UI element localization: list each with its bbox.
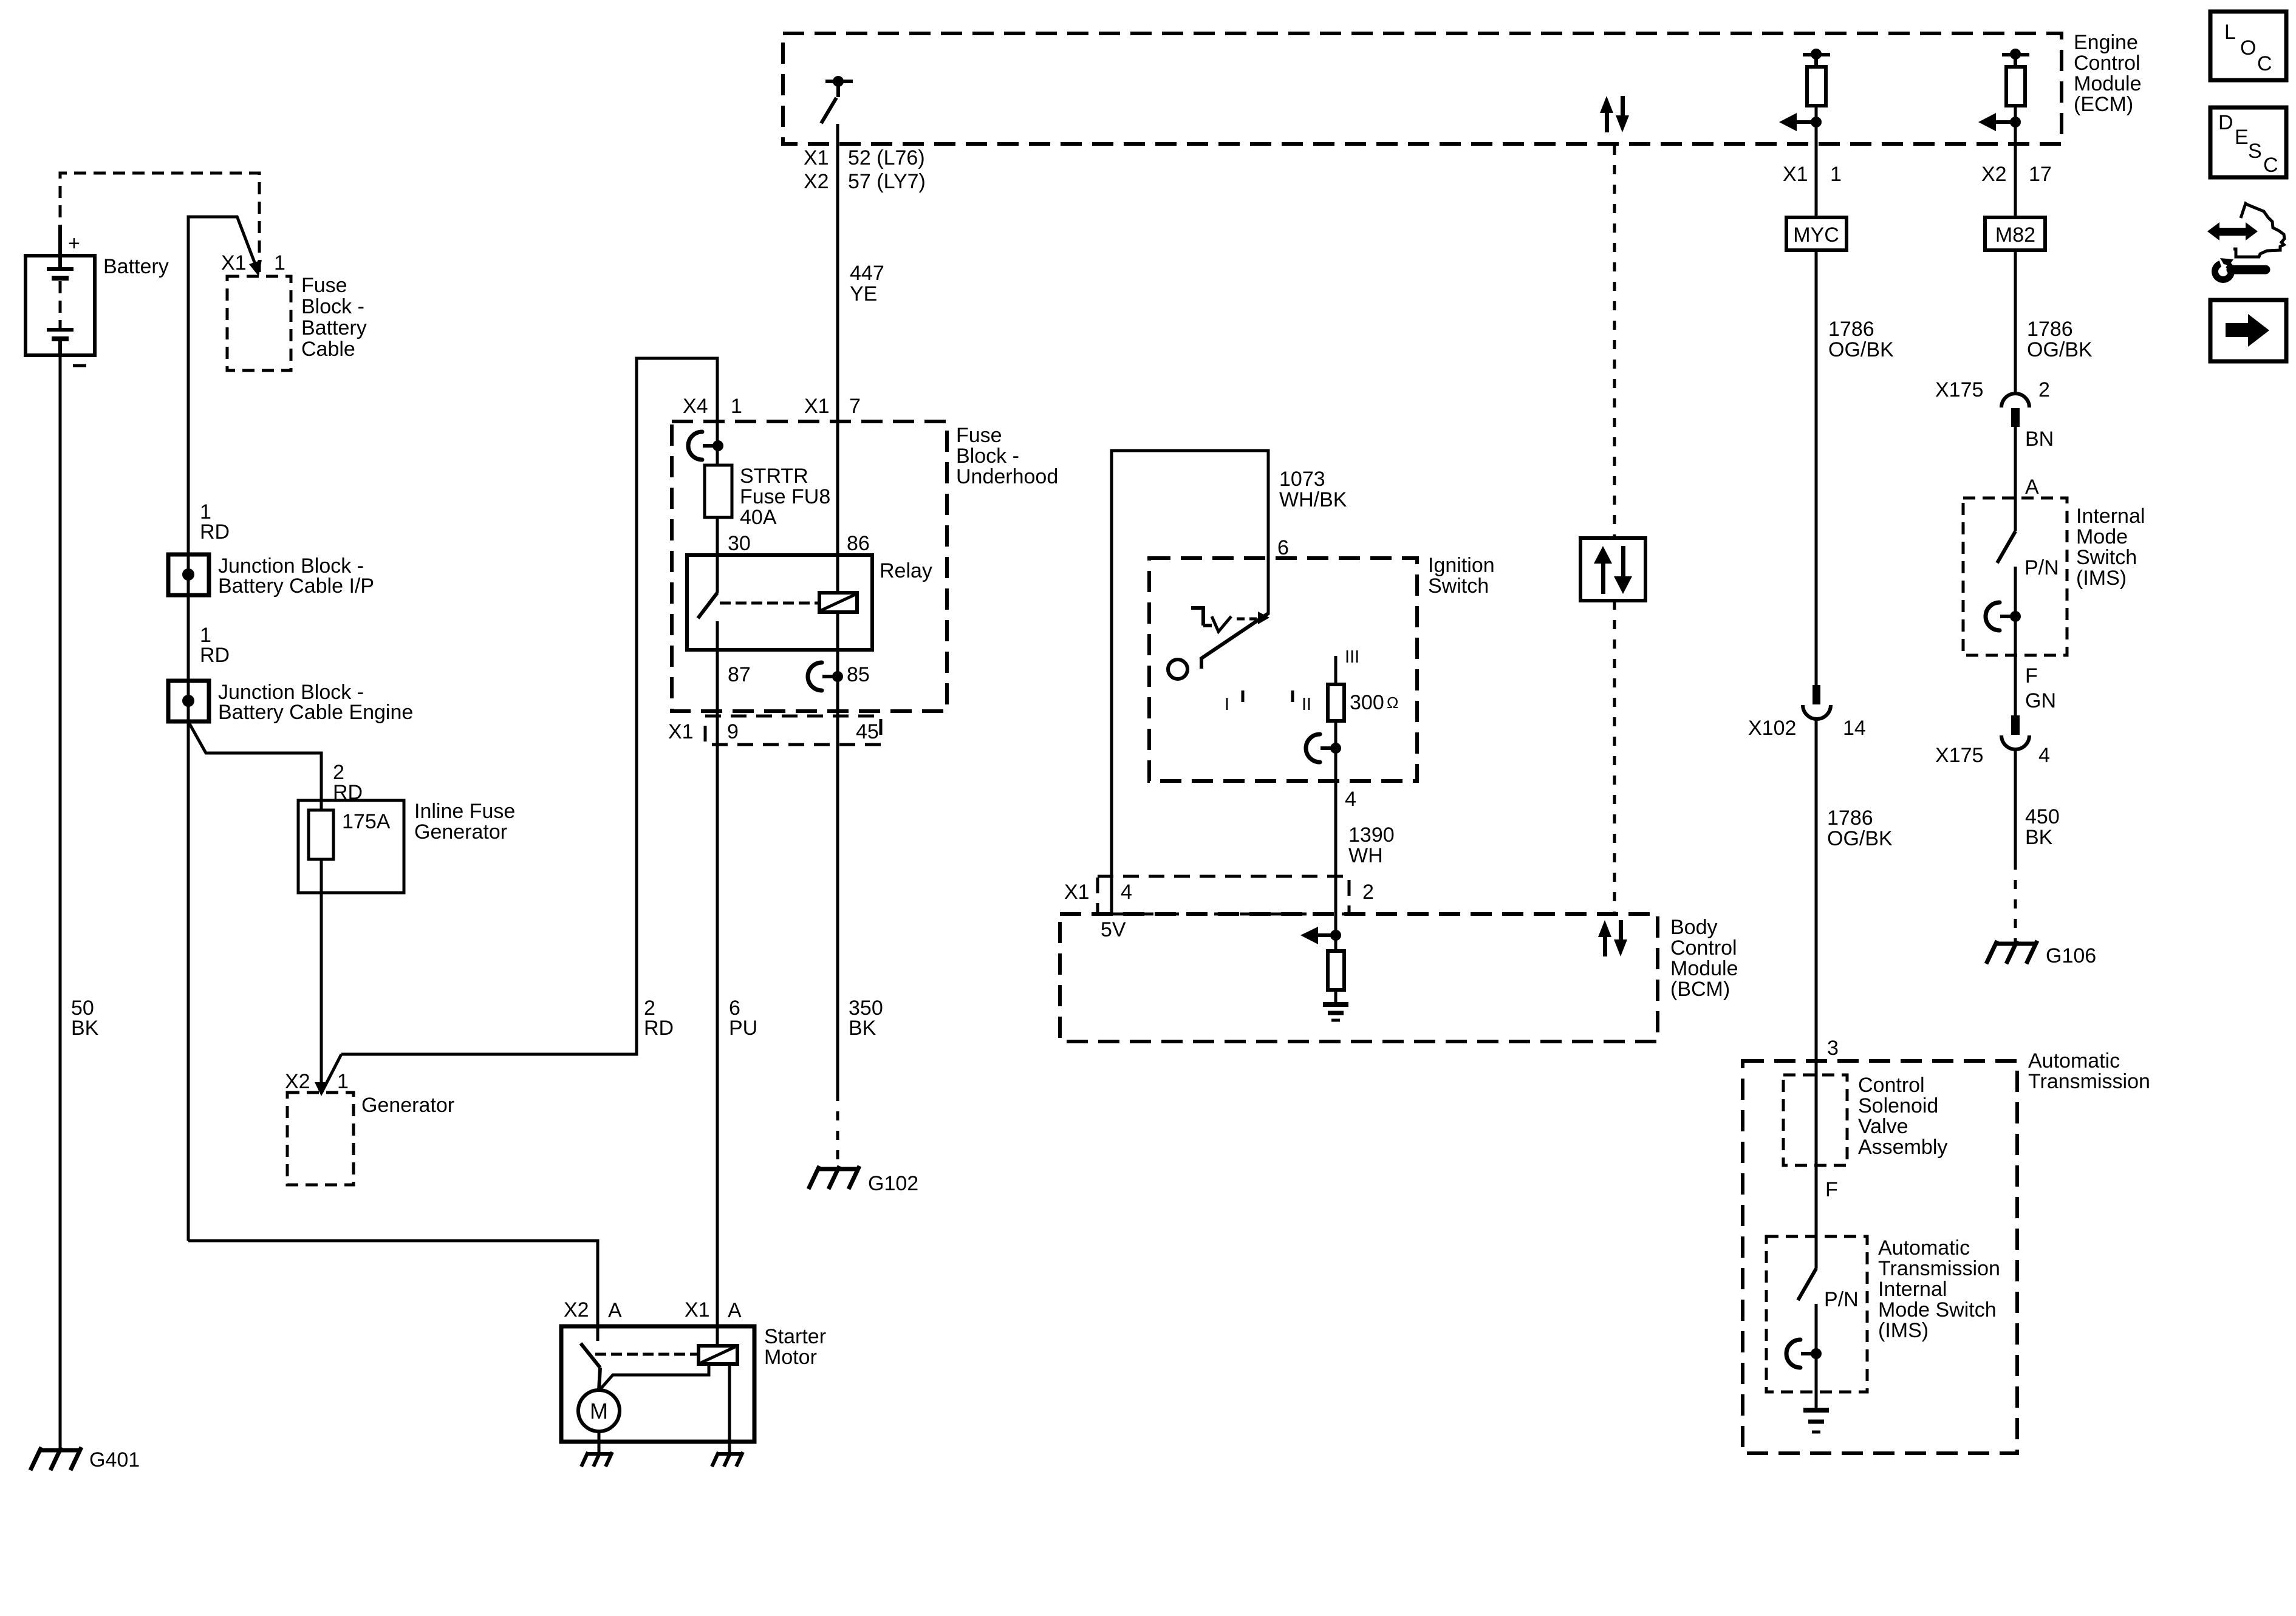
- svg-text:Module: Module: [2074, 72, 2142, 95]
- svg-text:Block -: Block -: [956, 445, 1019, 468]
- svg-text:BK: BK: [2025, 826, 2053, 849]
- connector MYC: [1786, 217, 1847, 250]
- wire 450 BK to ground: [2015, 749, 2060, 942]
- wire BN to IMS pin A: [2015, 427, 2054, 531]
- ignition resistor 300 ohm: [1328, 656, 1398, 721]
- BCM input sense arrow at pin 2: [1300, 927, 1341, 944]
- svg-text:III: III: [1345, 647, 1359, 667]
- svg-text:(BCM): (BCM): [1670, 978, 1730, 1001]
- svg-text:P/N: P/N: [1824, 1288, 1859, 1311]
- svg-text:Transmission: Transmission: [1878, 1257, 2000, 1280]
- switch inside ECM (starter enable): [821, 76, 853, 123]
- svg-text:M: M: [590, 1399, 608, 1423]
- relay 85 clip: [808, 663, 843, 690]
- relay coil: [819, 593, 857, 612]
- svg-text:87: 87: [728, 663, 751, 686]
- svg-text:Valve: Valve: [1858, 1115, 1908, 1138]
- svg-text:Battery: Battery: [301, 316, 367, 339]
- branch wire 2 RD to inline fuse: [189, 723, 363, 810]
- svg-text:Internal: Internal: [2076, 505, 2145, 528]
- svg-text:1786: 1786: [1828, 318, 1874, 341]
- ECM pull-up resistor at pin X1-1: [1779, 49, 1830, 149]
- Fuse Block - Battery Cable dashed box: [227, 274, 367, 370]
- forward arrow legend box: [2210, 300, 2286, 361]
- svg-text:BK: BK: [849, 1017, 876, 1040]
- svg-text:Body: Body: [1670, 916, 1718, 939]
- svg-text:C: C: [2257, 52, 2272, 75]
- svg-text:Engine: Engine: [2074, 31, 2138, 54]
- svg-text:Assembly: Assembly: [1858, 1136, 1947, 1159]
- svg-text:300: 300: [1350, 691, 1384, 714]
- svg-text:(IMS): (IMS): [1878, 1319, 1929, 1342]
- svg-text:GN: GN: [2025, 689, 2056, 712]
- svg-text:447: 447: [850, 262, 884, 285]
- BCM internal up/down arrows: [1598, 920, 1627, 956]
- svg-text:WH: WH: [1348, 844, 1383, 867]
- wire 1786 OG/BK from X102 to automatic transmission pin 3: [1816, 719, 1893, 1269]
- ground G102: [808, 1166, 918, 1195]
- svg-text:2: 2: [1362, 881, 1374, 904]
- svg-text:Generator: Generator: [414, 820, 507, 844]
- svg-text:175A: 175A: [342, 810, 391, 833]
- relay switch blade: [698, 555, 818, 618]
- svg-text:OG/BK: OG/BK: [2027, 338, 2093, 361]
- wire 350 BK relay 85 to ground: [838, 612, 883, 1167]
- svg-text:Underhood: Underhood: [956, 465, 1058, 488]
- inline connector X102 pin 14: [1748, 685, 1866, 740]
- svg-text:X1: X1: [804, 146, 829, 169]
- DESC legend box: [2210, 107, 2286, 177]
- svg-text:Internal: Internal: [1878, 1278, 1947, 1301]
- svg-text:F: F: [1825, 1178, 1838, 1201]
- svg-text:X175: X175: [1935, 744, 1983, 767]
- svg-text:Solenoid: Solenoid: [1858, 1094, 1938, 1117]
- svg-text:(ECM): (ECM): [2074, 93, 2133, 116]
- starter solenoid ground: [712, 1452, 743, 1467]
- starter contact blade: [581, 1343, 697, 1391]
- wire 447 YE ECM to relay coil 86: [804, 124, 926, 593]
- starter motor M: [578, 1390, 620, 1453]
- svg-text:X2: X2: [1981, 163, 2007, 186]
- Internal Mode Switch IMS dashed box: [1963, 498, 2145, 655]
- svg-text:X2: X2: [564, 1298, 589, 1321]
- battery dashed outline: [60, 173, 259, 276]
- svg-text:OG/BK: OG/BK: [1827, 827, 1893, 850]
- svg-text:52 (L76): 52 (L76): [848, 146, 925, 169]
- svg-text:Motor: Motor: [764, 1346, 817, 1369]
- wire ECM X2-17 to connector M82: [2014, 149, 2017, 217]
- Generator dashed box: [287, 1093, 454, 1185]
- svg-text:1073: 1073: [1279, 468, 1325, 491]
- ECM internal up/down data arrows: [1600, 96, 1629, 132]
- svg-text:II: II: [1302, 695, 1311, 714]
- IMS wiper clip symbol: [1986, 602, 2021, 630]
- svg-text:1: 1: [337, 1070, 349, 1093]
- Control Solenoid Valve Assembly dashed box: [1783, 1074, 1947, 1165]
- svg-text:Mode Switch: Mode Switch: [1878, 1298, 1997, 1321]
- svg-text:4: 4: [1121, 881, 1132, 904]
- svg-text:X1: X1: [221, 251, 247, 274]
- svg-text:RD: RD: [200, 644, 230, 667]
- pin label X2 17 (ECM): [1981, 163, 2052, 186]
- svg-text:Mode: Mode: [2076, 525, 2128, 548]
- svg-text:Battery Cable I/P: Battery Cable I/P: [218, 574, 374, 598]
- svg-text:F: F: [2025, 664, 2038, 687]
- svg-text:X1: X1: [804, 395, 830, 418]
- svg-text:Automatic: Automatic: [2028, 1049, 2120, 1072]
- clip at fuse block pin X4-1: [688, 421, 723, 465]
- svg-text:1: 1: [1830, 163, 1842, 186]
- svg-text:85: 85: [847, 663, 870, 686]
- svg-text:Inline Fuse: Inline Fuse: [414, 800, 515, 823]
- BCM connector pin box X1 4 2: [1064, 876, 1374, 941]
- dashed signal wire ECM to BCM: [1613, 146, 1616, 914]
- svg-text:17: 17: [2029, 163, 2052, 186]
- connector M82: [1985, 217, 2045, 250]
- svg-text:Ω: Ω: [1387, 694, 1398, 712]
- Inline Fuse Generator 175A: [298, 800, 515, 893]
- svg-text:Ignition: Ignition: [1428, 554, 1495, 577]
- svg-text:57 (LY7): 57 (LY7): [848, 170, 926, 193]
- Junction Block - Battery Cable Engine: [168, 681, 413, 724]
- svg-text:5V: 5V: [1101, 918, 1126, 941]
- wire F GN to X175-4: [2015, 655, 2056, 716]
- svg-text:Block -: Block -: [301, 295, 364, 318]
- svg-text:45: 45: [856, 720, 879, 743]
- svg-text:6: 6: [1277, 536, 1289, 559]
- ignition output clip: [1306, 734, 1341, 762]
- svg-text:1: 1: [731, 395, 742, 418]
- Automatic Transmission IMS dashed box: [1766, 1236, 2000, 1392]
- IMS switch blade P/N: [1997, 531, 2059, 579]
- svg-text:1390: 1390: [1348, 823, 1395, 847]
- starter pin labels X2 A X1 A: [564, 1298, 742, 1322]
- svg-text:A: A: [728, 1299, 742, 1322]
- svg-text:I: I: [1225, 695, 1229, 714]
- BCM pull-down resistor: [1328, 914, 1344, 1002]
- svg-text:4: 4: [1345, 788, 1356, 811]
- svg-text:4: 4: [2038, 744, 2050, 767]
- generator connector labels X2 1: [285, 1070, 349, 1093]
- svg-text:Battery Cable Engine: Battery Cable Engine: [218, 701, 413, 724]
- svg-text:30: 30: [728, 532, 751, 555]
- svg-text:Transmission: Transmission: [2028, 1070, 2150, 1093]
- svg-text:PU: PU: [729, 1017, 757, 1040]
- boxed up/down data link symbol: [1580, 538, 1645, 601]
- wire 1073 WH/BK ignition feed: [1112, 451, 1347, 914]
- svg-text:X2: X2: [804, 170, 829, 193]
- wire battery cable to starter X2-A: [188, 1241, 598, 1341]
- pin labels X1 7 (fuse block underhood): [804, 395, 861, 418]
- BCM signal ground: [1323, 1004, 1348, 1020]
- svg-text:X102: X102: [1748, 717, 1796, 740]
- svg-text:1786: 1786: [1827, 806, 1873, 830]
- ECM dashed box U1 Engine Control Module: [783, 31, 2142, 144]
- inline connector X175 pin 4: [1935, 715, 2050, 767]
- IMS fixed contact wire: [2014, 567, 2017, 655]
- relay K1 box: [687, 555, 932, 650]
- svg-text:+: +: [68, 232, 80, 255]
- svg-text:Module: Module: [1670, 957, 1738, 980]
- relay pin labels 30 86 87 85: [728, 532, 870, 686]
- svg-text:Battery: Battery: [103, 255, 169, 278]
- wire label 1 RD (middle): [200, 624, 230, 667]
- svg-text:X1: X1: [1783, 163, 1808, 186]
- svg-text:D: D: [2218, 111, 2233, 134]
- svg-text:7: 7: [849, 395, 861, 418]
- svg-text:BN: BN: [2025, 428, 2054, 451]
- AT IMS switch blade P/N: [1798, 1269, 1859, 1311]
- svg-text:G401: G401: [89, 1448, 140, 1471]
- ground G106: [1986, 941, 2096, 967]
- svg-text:1: 1: [274, 251, 285, 274]
- inline connector X175 pin 2: [1935, 378, 2050, 427]
- ignition key symbol: [1191, 608, 1269, 632]
- svg-text:STRTR: STRTR: [740, 465, 808, 488]
- BCM dashed box Body Control Module: [1060, 914, 1738, 1042]
- wrench icon: [2212, 256, 2266, 283]
- svg-text:Fuse FU8: Fuse FU8: [740, 485, 830, 508]
- svg-text:Control: Control: [2074, 52, 2141, 75]
- Fuse Block - Underhood dashed box: [672, 421, 1058, 711]
- svg-text:Automatic: Automatic: [1878, 1236, 1970, 1260]
- ECM pull-up resistor at pin X2-17: [1978, 49, 2029, 149]
- svg-text:9: 9: [727, 720, 739, 743]
- svg-text:Switch: Switch: [1428, 574, 1489, 598]
- wire 2 RD generator output to relay pin 87 feed: [341, 358, 717, 1054]
- svg-text:WH/BK: WH/BK: [1279, 488, 1347, 511]
- AT IMS signal ground: [1803, 1410, 1829, 1432]
- wire 1390 WH ignition to BCM pin 2: [1336, 721, 1395, 914]
- svg-text:14: 14: [1843, 717, 1866, 740]
- svg-text:Control: Control: [1858, 1074, 1925, 1097]
- Ignition Switch dashed box: [1149, 554, 1495, 781]
- svg-text:C: C: [2263, 154, 2278, 177]
- svg-text:YE: YE: [850, 282, 877, 305]
- svg-text:86: 86: [847, 532, 870, 555]
- svg-text:450: 450: [2025, 805, 2060, 828]
- pin label X1 1 (ECM): [1783, 163, 1842, 186]
- svg-text:Control: Control: [1670, 936, 1737, 960]
- svg-text:S: S: [2248, 140, 2262, 163]
- wire 1786 OG/BK from M82 to X175-2: [2015, 250, 2093, 395]
- wire 2 RD inline fuse to generator: [315, 893, 341, 1096]
- wire label 1 RD (upper): [200, 500, 230, 544]
- STRTR Fuse FU8 40A: [705, 465, 830, 555]
- starter solenoid coil: [599, 1346, 737, 1453]
- Junction Block - Battery Cable I/P: [168, 554, 374, 598]
- svg-text:RD: RD: [644, 1017, 674, 1040]
- svg-text:40A: 40A: [740, 506, 777, 529]
- svg-text:A: A: [2025, 476, 2039, 499]
- wire 1786 OG/BK from MYC to X102: [1816, 250, 1894, 686]
- Automatic Transmission dashed box: [1743, 1049, 2150, 1453]
- ignition switch blade and pivot: [1168, 613, 1268, 679]
- svg-text:1786: 1786: [2027, 318, 2073, 341]
- vehicle data link icon: [2207, 203, 2284, 257]
- svg-text:M82: M82: [1995, 223, 2035, 247]
- svg-text:L: L: [2224, 21, 2236, 44]
- battery B1: [26, 225, 169, 366]
- svg-text:X1: X1: [668, 720, 694, 743]
- svg-text:2: 2: [2038, 378, 2050, 401]
- starter motor ground: [581, 1452, 612, 1467]
- svg-text:P/N: P/N: [2024, 556, 2059, 579]
- pin labels X4 1 (fuse block underhood): [683, 395, 742, 418]
- battery positive cable connector X1 1: [188, 216, 285, 1241]
- svg-text:RD: RD: [200, 520, 230, 544]
- svg-text:Fuse: Fuse: [301, 274, 347, 297]
- svg-text:Fuse: Fuse: [956, 424, 1002, 447]
- svg-text:X2: X2: [285, 1070, 310, 1093]
- wire 6 PU relay 87 to starter solenoid: [717, 621, 757, 1346]
- fuse block underhood connector pin box X1 9 45: [668, 716, 881, 745]
- LOC legend box: [2210, 12, 2286, 80]
- svg-text:G102: G102: [868, 1172, 918, 1195]
- svg-text:(IMS): (IMS): [2076, 567, 2127, 590]
- Starter Motor box: [561, 1325, 826, 1442]
- svg-text:3: 3: [1827, 1037, 1839, 1060]
- AT IMS fixed contact wire: [1815, 1304, 1818, 1408]
- svg-text:Relay: Relay: [880, 559, 932, 582]
- svg-text:X1: X1: [1064, 881, 1090, 904]
- svg-text:Cable: Cable: [301, 338, 355, 361]
- svg-text:Switch: Switch: [2076, 546, 2137, 569]
- ground G401: [30, 1447, 140, 1471]
- svg-text:E: E: [2235, 126, 2249, 149]
- svg-text:Generator: Generator: [361, 1094, 454, 1117]
- svg-text:A: A: [608, 1299, 622, 1322]
- wire ECM X1-1 to connector MYC: [1815, 149, 1818, 217]
- svg-text:X1: X1: [685, 1298, 710, 1321]
- svg-text:G106: G106: [2046, 944, 2096, 967]
- svg-text:OG/BK: OG/BK: [1828, 338, 1894, 361]
- svg-text:BK: BK: [71, 1017, 99, 1040]
- svg-text:X4: X4: [683, 395, 708, 418]
- svg-text:X175: X175: [1935, 378, 1983, 401]
- ignition position marks I II III: [1225, 647, 1359, 714]
- AT IMS wiper clip: [1786, 1340, 1822, 1368]
- wire 50 BK battery negative to G401: [60, 355, 99, 1448]
- svg-text:O: O: [2240, 36, 2256, 60]
- svg-text:MYC: MYC: [1793, 223, 1839, 247]
- svg-text:Starter: Starter: [764, 1325, 826, 1348]
